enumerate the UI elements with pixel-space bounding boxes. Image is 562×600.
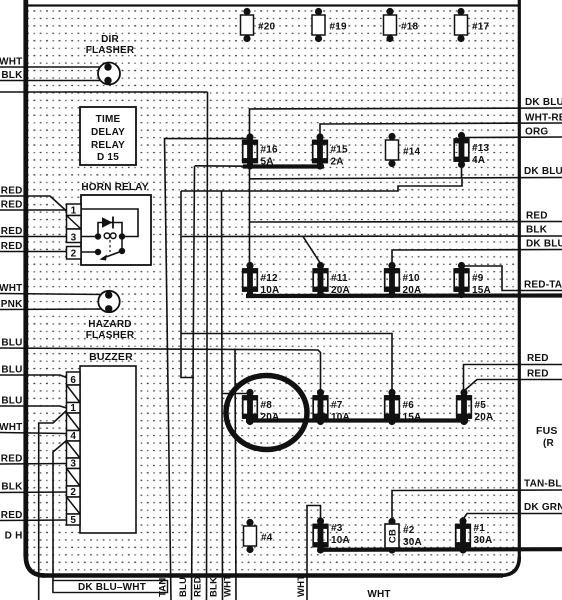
svg-text:3: 3 (70, 458, 76, 469)
svg-text:RED: RED (1, 186, 23, 197)
horn relay coil node right (119, 233, 125, 239)
fuse #6 15A (385, 389, 422, 425)
svg-text:RED: RED (527, 369, 549, 380)
horn relay pin 2 box (67, 247, 82, 260)
svg-text:RED: RED (1, 454, 23, 465)
fuse #20 (empty) (241, 8, 276, 42)
svg-text:BLU: BLU (1, 365, 22, 376)
svg-text:WHT: WHT (367, 589, 390, 600)
horn relay pin 3 box (67, 229, 82, 243)
svg-text:DK BLU: DK BLU (525, 97, 562, 108)
TIME DELAY RELAY D15 box (80, 107, 136, 165)
hazard flasher relay (98, 291, 119, 312)
svg-text:30A: 30A (403, 537, 422, 548)
svg-text:4: 4 (70, 431, 76, 442)
svg-text:HAZARD: HAZARD (88, 319, 131, 330)
circuit breaker #2 30A (385, 518, 422, 554)
svg-text:10A: 10A (331, 535, 350, 546)
fuse #7 10A (313, 389, 350, 425)
svg-text:20A: 20A (261, 412, 280, 423)
svg-text:DELAY: DELAY (91, 127, 125, 138)
wire RED to horn relay pin1 (0, 209, 67, 211)
bus fuse16-fuse15 (243, 164, 324, 168)
svg-text:5: 5 (70, 515, 76, 526)
svg-text:WHT: WHT (223, 575, 234, 597)
svg-text:#2: #2 (403, 525, 415, 536)
horn relay pin 1 box (67, 204, 82, 216)
svg-text:TAN: TAN (158, 578, 169, 597)
wire BLK to buzzer pin2 (0, 491, 67, 494)
wire vertical TAN (165, 139, 251, 600)
svg-text:BUZZER: BUZZER (89, 351, 133, 363)
horn relay coil node left (95, 233, 101, 239)
panel border right (518, 0, 521, 558)
svg-text:#5: #5 (475, 400, 487, 411)
wire RED to horn relay pin2 (0, 251, 67, 253)
svg-text:DK BLU: DK BLU (524, 166, 562, 177)
panel border bottom (43, 573, 503, 578)
svg-text:#20: #20 (258, 22, 276, 33)
wire WHT to hazard flasher (0, 294, 105, 295)
wire BLU to buzzer pin6 (0, 375, 67, 378)
horn relay box (81, 195, 151, 265)
DK BLU-WHT label box (53, 581, 168, 593)
horn relay switch arm (102, 251, 122, 259)
svg-text:20A: 20A (331, 285, 350, 296)
svg-text:RED: RED (1, 226, 23, 237)
svg-text:DK BLU: DK BLU (526, 239, 562, 250)
fuse #10 20A (385, 262, 422, 298)
buzzer box (80, 366, 136, 533)
svg-text:30A: 30A (474, 535, 493, 546)
svg-text:#9: #9 (472, 273, 484, 284)
panel border bottom-right corner (500, 557, 519, 576)
wire RED to horn relay pin3 (0, 236, 67, 238)
svg-text:WHT: WHT (296, 575, 307, 597)
wire vertical BLU (line B start) (181, 191, 194, 378)
svg-text:#1: #1 (474, 523, 486, 534)
horn relay pin2 wire (81, 251, 98, 253)
wire DK GRN to fuse1 (463, 514, 562, 520)
svg-text:RED: RED (1, 241, 23, 252)
horn relay switch common wire (121, 237, 123, 252)
fuse #16 5A (243, 133, 278, 169)
svg-text:WHT: WHT (0, 422, 23, 433)
wire DK BLU line (250, 167, 562, 179)
wire fuse16 top to DK BLU exit (250, 108, 562, 137)
svg-text:(R: (R (543, 438, 555, 449)
svg-text:TIME: TIME (96, 114, 121, 125)
svg-text:15A: 15A (472, 285, 491, 296)
svg-text:1: 1 (70, 403, 76, 414)
svg-text:10A: 10A (261, 285, 280, 296)
svg-text:TAN-BL: TAN-BL (524, 479, 562, 490)
wire RED to horn relay pin1 area (0, 196, 67, 211)
svg-text:2: 2 (70, 487, 76, 498)
buzzer pin column (67, 372, 81, 385)
wire WHT to buzzer pin4 (0, 433, 67, 434)
svg-text:6: 6 (70, 375, 76, 386)
bus row4 (246, 418, 468, 422)
svg-text:3: 3 (71, 233, 77, 244)
svg-text:WHT: WHT (0, 57, 23, 68)
svg-text:DK BLU–WHT: DK BLU–WHT (78, 582, 146, 593)
wire fuse10 top to DK BLU exit (392, 250, 562, 265)
svg-text:DK GRN: DK GRN (524, 502, 562, 513)
svg-text:15A: 15A (403, 412, 422, 423)
svg-text:RED: RED (1, 510, 23, 521)
wire fuse13 top ORG exit (462, 136, 562, 139)
wire CB top TAN-BL exit (392, 490, 562, 522)
svg-text:D 15: D 15 (97, 152, 119, 163)
horn relay switch contact left (95, 249, 101, 255)
fuse #3 10A (313, 517, 350, 553)
fuse #13 4A (454, 132, 489, 168)
svg-text:BLK: BLK (209, 577, 220, 597)
svg-text:FLASHER: FLASHER (86, 330, 135, 341)
hazard flasher terminal bottom (105, 305, 112, 312)
wire buzzer pin4 drop to DK BLU-WHT (53, 441, 67, 593)
horn relay diode D1 (102, 217, 113, 228)
svg-text:CB: CB (388, 529, 399, 543)
horn relay switch contact right (119, 248, 125, 254)
fuse #1 30A (456, 517, 493, 553)
wire WHT drop to fuse3 (307, 506, 321, 600)
svg-text:#17: #17 (472, 22, 490, 33)
svg-text:BLU: BLU (1, 338, 22, 349)
fuse #8 20A (circled) (243, 389, 280, 425)
DIR flasher terminal bottom (104, 77, 111, 84)
wire vertical to fuse8 (222, 191, 248, 600)
svg-text:PNK: PNK (1, 299, 23, 310)
bus row3 RED-TAN (246, 293, 562, 298)
horn relay slash box (67, 216, 82, 230)
DIR flasher relay (98, 63, 120, 85)
wire RED to fuse5 a (464, 365, 562, 391)
wire diagonal to fuse11 top (303, 237, 321, 264)
svg-text:WHT-RED: WHT-RED (525, 113, 562, 124)
panel border top (24, 4, 519, 6)
svg-text:#6: #6 (403, 400, 415, 411)
svg-text:10A: 10A (331, 412, 350, 423)
wire vertical BLK (from node feed) (207, 92, 208, 600)
wire node DKBLU feed (0, 91, 208, 93)
svg-text:ORG: ORG (525, 127, 548, 138)
svg-text:#13: #13 (472, 143, 490, 154)
wire RED to fuse5 b (465, 380, 562, 391)
svg-text:RED: RED (1, 200, 23, 211)
wire buzzer pin1 drop (39, 411, 67, 600)
wire RED to buzzer pin5 (0, 519, 67, 522)
wire BLK line right (182, 235, 562, 238)
hazard flasher terminal top (105, 291, 112, 298)
svg-text:BLK: BLK (1, 70, 23, 81)
fuse #9 15A (454, 262, 491, 298)
svg-text:20A: 20A (403, 285, 422, 296)
svg-text:RELAY: RELAY (91, 140, 125, 151)
wire fuse13 bottom drop (461, 164, 463, 179)
wire fuse9 top loop (462, 266, 562, 291)
svg-text:#19: #19 (330, 22, 348, 33)
wire RED to buzzer pin3 (0, 463, 67, 466)
svg-text:D H: D H (5, 531, 23, 542)
svg-text:#4: #4 (261, 533, 273, 544)
svg-text:RED: RED (193, 576, 204, 597)
horn relay diode branch wire (98, 223, 122, 237)
svg-text:#14: #14 (403, 147, 421, 158)
svg-text:#15: #15 (331, 145, 349, 156)
fuse #19 (empty) (312, 8, 347, 42)
svg-text:#12: #12 (261, 273, 279, 284)
svg-text:#3: #3 (331, 523, 343, 534)
fuse #18 (empty) (384, 8, 419, 42)
wire fuse15 top to WHT-RED exit (320, 123, 562, 137)
horn relay coil wire pin3 (81, 236, 98, 238)
panel border bottom-left corner (26, 556, 45, 576)
wire vertical WHT2 (235, 349, 236, 600)
wire line B (181, 179, 462, 191)
fuse #17 (empty) (455, 8, 490, 42)
horn relay coil (104, 233, 110, 239)
svg-text:RED: RED (527, 353, 549, 364)
svg-text:RED-TA: RED-TA (524, 280, 562, 291)
bus row5 (318, 547, 562, 552)
wire fuse6 feed (181, 334, 392, 391)
svg-text:BLU: BLU (178, 577, 189, 597)
wire bus to vertical RED (195, 165, 246, 167)
fuse #11 20A (313, 262, 350, 298)
wire WHT to DIR flasher (0, 66, 107, 68)
fuse #14 (empty) (386, 133, 421, 167)
highlight ellipse around fuse8 (226, 376, 307, 450)
horn relay pin1 internal wire (81, 209, 138, 237)
svg-text:RED: RED (526, 211, 548, 222)
DIR flasher terminal top (104, 63, 111, 70)
svg-text:BLU: BLU (1, 396, 22, 407)
svg-text:WHT: WHT (0, 283, 23, 294)
svg-text:20A: 20A (475, 412, 494, 423)
wire BLK to DIR flasher (0, 80, 107, 82)
svg-text:4A: 4A (472, 155, 485, 166)
svg-text:2: 2 (71, 249, 77, 260)
fuse #15 2A (313, 133, 348, 169)
horn relay actuator dashed link (109, 240, 111, 252)
wire BLU long to fuse #7 (0, 348, 321, 390)
svg-text:2A: 2A (331, 157, 344, 168)
svg-text:5A: 5A (261, 157, 274, 168)
wire BLU to buzzer pin1 (0, 406, 67, 408)
fuse #12 10A (243, 262, 280, 298)
svg-text:DIR: DIR (101, 34, 119, 45)
svg-text:FLASHER: FLASHER (86, 45, 135, 56)
svg-text:#18: #18 (401, 22, 419, 33)
wire PNK to hazard flasher (0, 308, 105, 311)
svg-text:BLK: BLK (1, 482, 23, 493)
svg-text:#10: #10 (403, 273, 421, 284)
panel border left (23, 0, 28, 557)
svg-text:#11: #11 (331, 273, 348, 284)
fuse #5 20A (457, 389, 494, 425)
fuse #4 (empty) (244, 519, 273, 553)
svg-text:HORN RELAY: HORN RELAY (81, 182, 148, 193)
svg-text:#16: #16 (261, 145, 279, 156)
svg-text:BLK: BLK (526, 225, 548, 236)
svg-text:#7: #7 (331, 400, 343, 411)
wire column 250 (249, 179, 251, 264)
wire RED line right (250, 221, 562, 224)
svg-text:FUS: FUS (536, 425, 558, 437)
svg-text:#8: #8 (261, 400, 273, 411)
wire vertical RED (192, 166, 195, 600)
